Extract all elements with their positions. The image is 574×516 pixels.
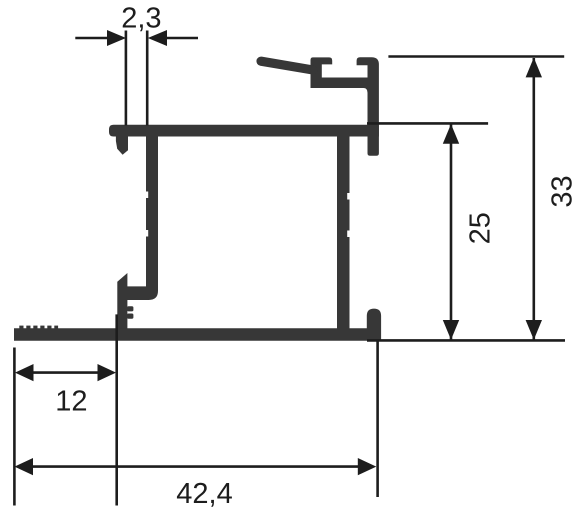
svg-text:42,4: 42,4: [176, 478, 232, 510]
svg-text:33: 33: [547, 175, 574, 207]
svg-text:2,3: 2,3: [121, 2, 161, 34]
svg-text:12: 12: [55, 386, 87, 418]
svg-text:25: 25: [465, 212, 497, 244]
